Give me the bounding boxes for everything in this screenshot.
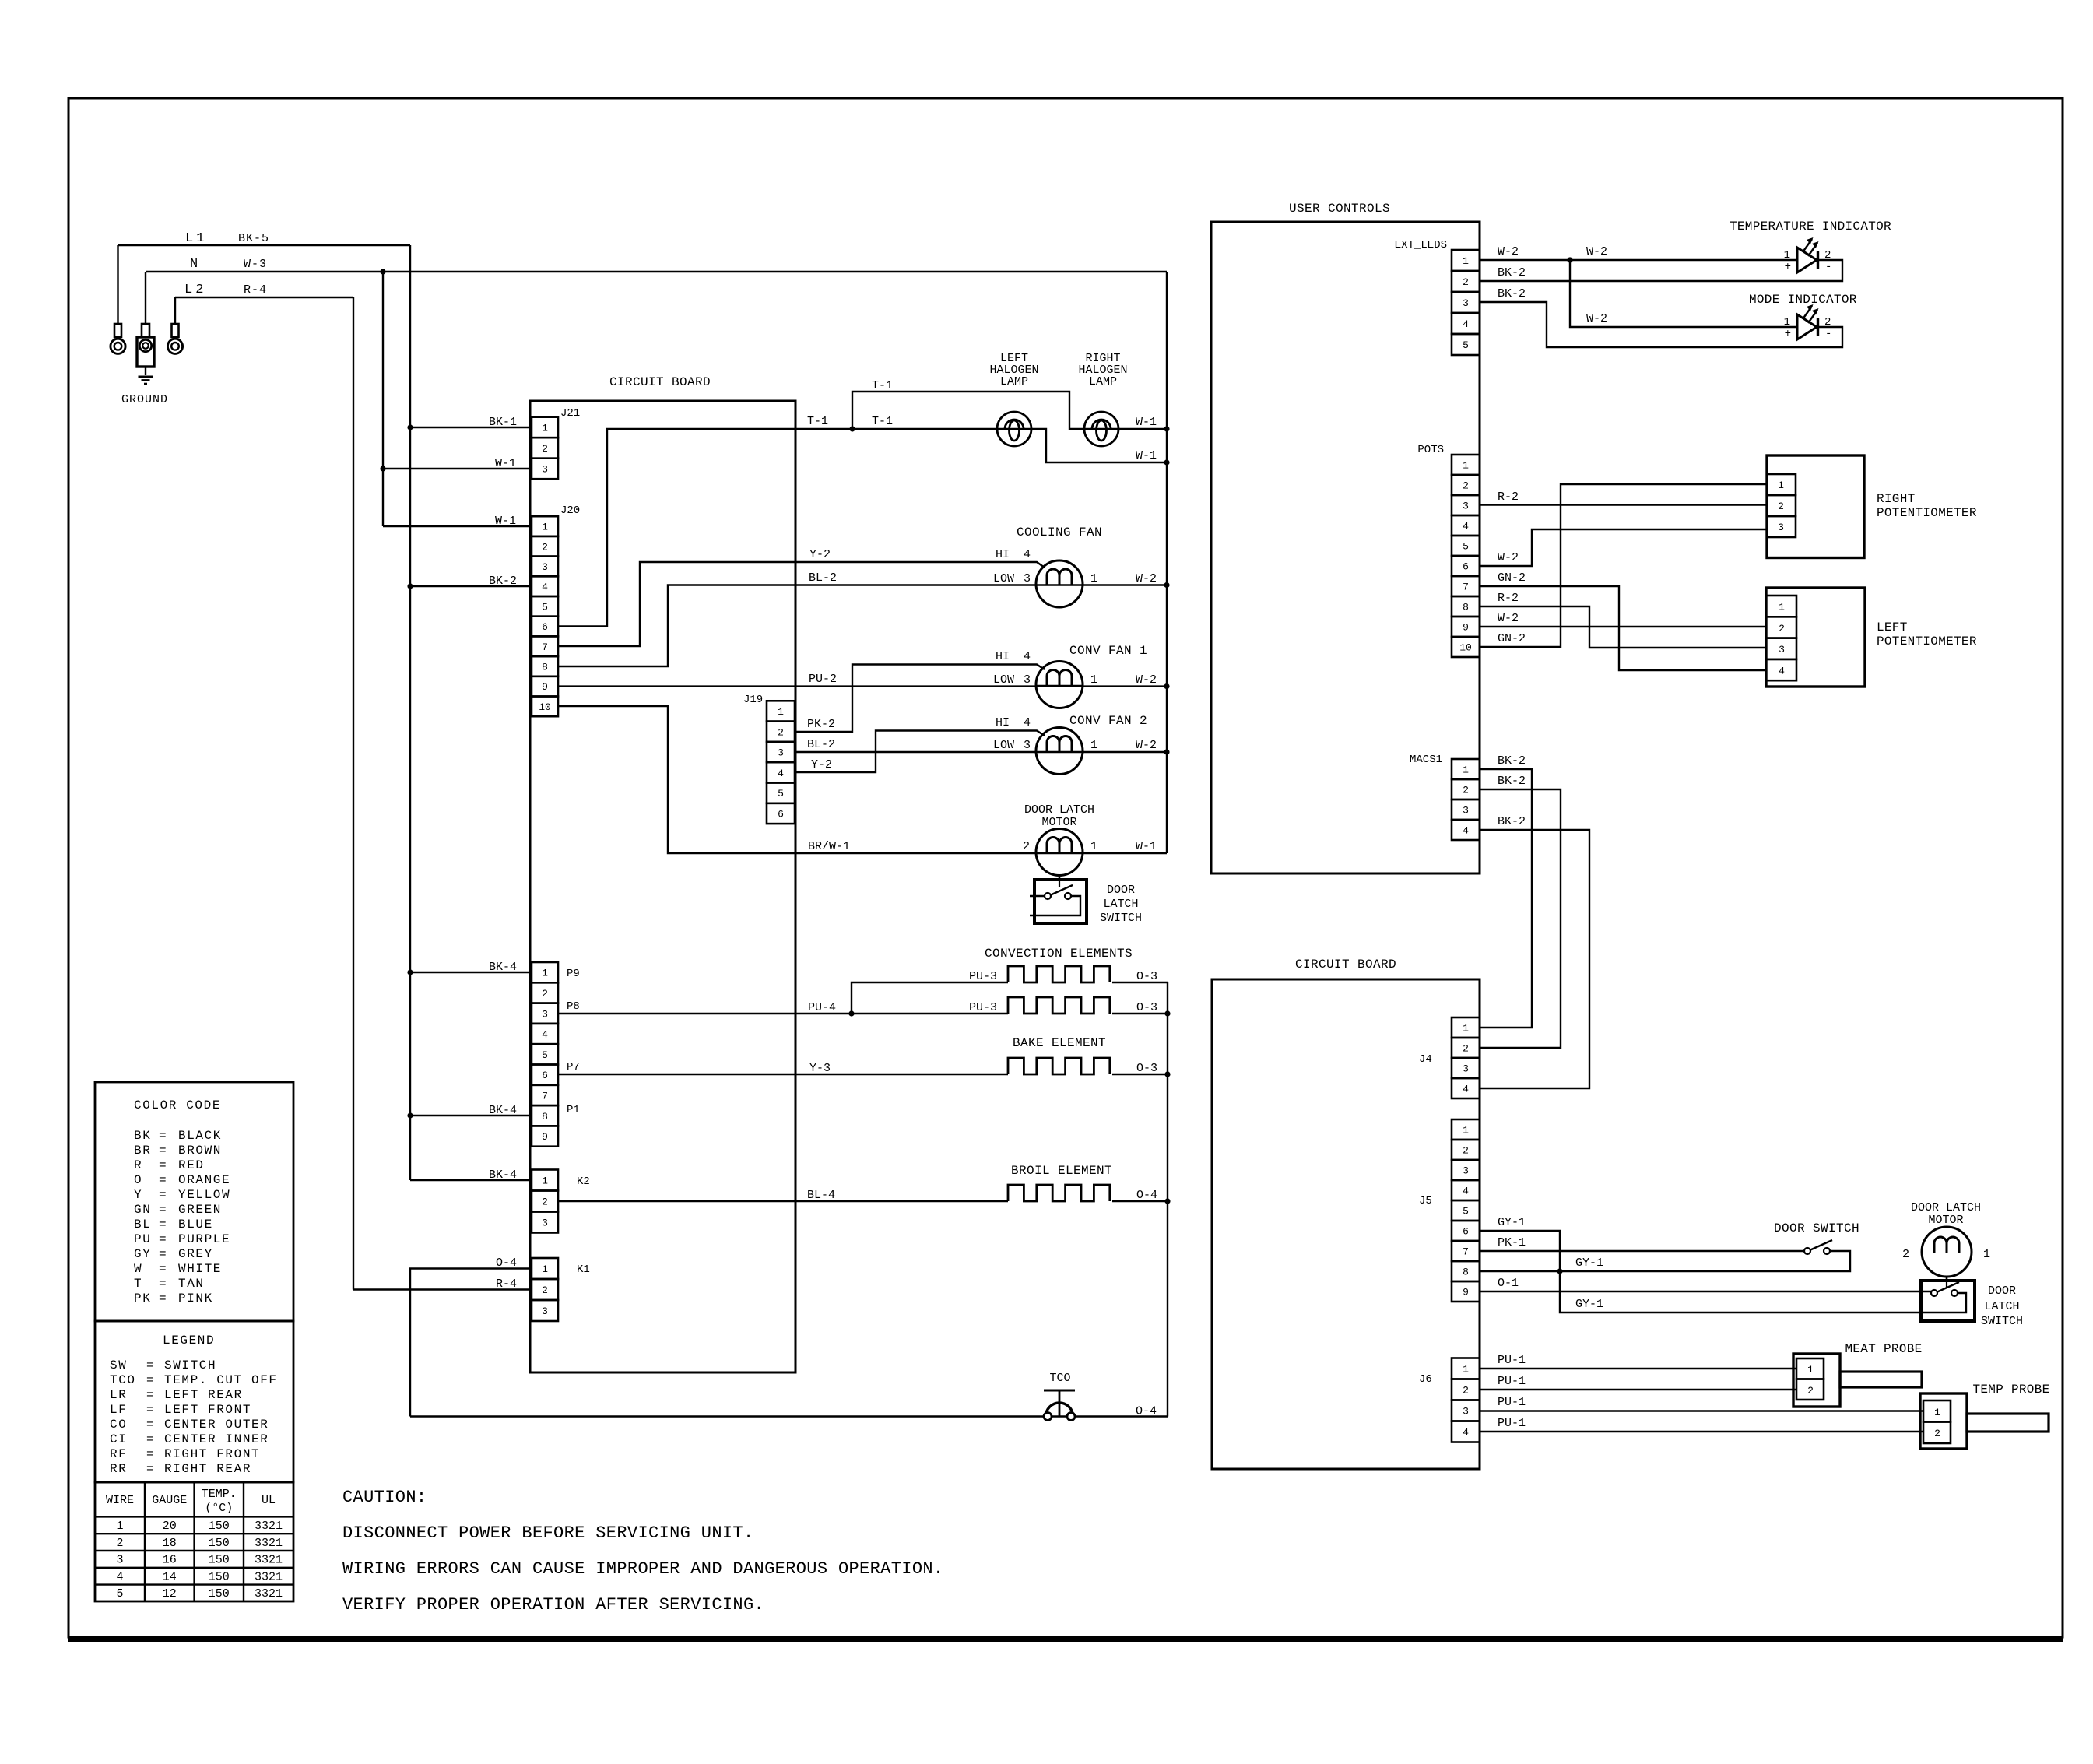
svg-text:3: 3: [542, 1305, 548, 1317]
svg-text:W-2: W-2: [1498, 612, 1519, 625]
svg-text:LAMP: LAMP: [1000, 375, 1028, 388]
svg-text:1: 1: [1463, 1125, 1469, 1137]
svg-text:4: 4: [1024, 716, 1031, 729]
svg-text:3: 3: [1779, 644, 1785, 655]
wire W-2 POTS-9 to left pot 2: [1480, 612, 1766, 627]
svg-text:W-1: W-1: [1136, 449, 1157, 462]
broil element: [795, 1164, 1168, 1202]
svg-text:2: 2: [1779, 623, 1785, 634]
svg-text:K2: K2: [577, 1175, 590, 1188]
svg-text:P7: P7: [567, 1061, 580, 1074]
svg-text:2: 2: [778, 726, 784, 738]
svg-text:150: 150: [209, 1587, 230, 1601]
svg-text:RED: RED: [178, 1158, 205, 1172]
svg-text:BL: BL: [134, 1218, 151, 1232]
svg-text:BL-2: BL-2: [807, 738, 835, 751]
temp probe: [1920, 1383, 2050, 1449]
svg-text:1: 1: [1090, 572, 1097, 585]
svg-text:DOOR LATCH: DOOR LATCH: [1911, 1201, 1981, 1214]
svg-text:3: 3: [1463, 805, 1469, 817]
svg-text:2: 2: [542, 1284, 548, 1296]
svg-text:=: =: [159, 1262, 167, 1276]
svg-text:5: 5: [542, 1049, 548, 1061]
wire BK-2 EXT_LEDS-3 mode LED return: [1480, 287, 1842, 347]
svg-text:DOOR: DOOR: [1107, 884, 1135, 897]
svg-text:150: 150: [209, 1554, 230, 1567]
svg-text:2: 2: [1463, 785, 1469, 796]
svg-text:LR: LR: [110, 1388, 127, 1402]
svg-text:2: 2: [1778, 501, 1784, 512]
svg-text:W-2: W-2: [1498, 245, 1519, 258]
svg-text:O-4: O-4: [496, 1256, 517, 1270]
wire BK-2 MACS1-2 to J4-2: [1480, 775, 1561, 1048]
svg-text:DISCONNECT POWER BEFORE SERVIC: DISCONNECT POWER BEFORE SERVICING UNIT.: [342, 1523, 754, 1543]
connector J6: [1419, 1358, 1480, 1442]
svg-text:BK-1: BK-1: [489, 416, 517, 429]
svg-text:1: 1: [542, 1175, 548, 1187]
svg-text:J6: J6: [1419, 1373, 1432, 1386]
svg-text:=: =: [159, 1232, 167, 1246]
svg-text:W-1: W-1: [1136, 416, 1157, 429]
svg-text:2: 2: [1463, 1043, 1469, 1055]
door latch switch 1: [1030, 877, 1142, 925]
convection element 2: [795, 997, 1168, 1017]
svg-text:10: 10: [1459, 642, 1472, 654]
wire W-2 to mode LED: [1570, 260, 1797, 327]
svg-text:POTENTIOMETER: POTENTIOMETER: [1877, 506, 1977, 520]
wire BR/W-1 to door latch motor: [795, 840, 1036, 853]
svg-text:9: 9: [1463, 1287, 1469, 1298]
user controls outline: [1211, 202, 1480, 873]
svg-text:BR/W-1: BR/W-1: [808, 840, 850, 853]
svg-text:150: 150: [209, 1520, 230, 1533]
wire GN-2 POTS-10 to right pot 1: [1480, 484, 1767, 647]
svg-text:3: 3: [1024, 739, 1031, 752]
svg-text:TCO: TCO: [110, 1373, 136, 1387]
svg-text:LOW: LOW: [993, 572, 1014, 585]
svg-text:SWITCH: SWITCH: [164, 1358, 216, 1372]
svg-text:14: 14: [163, 1570, 177, 1583]
svg-text:MOTOR: MOTOR: [1928, 1214, 1963, 1227]
svg-text:W-2: W-2: [1136, 572, 1157, 585]
svg-text:=: =: [146, 1418, 154, 1432]
svg-text:9: 9: [542, 681, 548, 693]
svg-text:1: 1: [1807, 1364, 1814, 1376]
wire W-2 POTS-6 to right pot 3: [1480, 529, 1767, 566]
wire J20-7 to Y-2 exit: [558, 562, 795, 646]
svg-text:WHITE: WHITE: [178, 1262, 222, 1276]
svg-text:6: 6: [542, 621, 548, 633]
svg-text:4: 4: [116, 1570, 123, 1583]
svg-text:1: 1: [542, 1263, 548, 1275]
svg-text:R-2: R-2: [1498, 592, 1519, 605]
svg-text:4: 4: [1779, 665, 1785, 676]
svg-text:2: 2: [1463, 480, 1469, 492]
svg-text:4: 4: [1024, 650, 1031, 663]
door latch switch 2: [1921, 1281, 2023, 1328]
svg-text:GAUGE: GAUGE: [152, 1494, 187, 1507]
svg-text:BL-2: BL-2: [809, 571, 837, 585]
svg-text:J19: J19: [743, 694, 763, 706]
svg-text:Y-3: Y-3: [809, 1062, 831, 1075]
svg-text:CONVECTION ELEMENTS: CONVECTION ELEMENTS: [985, 947, 1133, 961]
wire W-1 left lamp return: [1031, 429, 1167, 462]
svg-text:1: 1: [1463, 255, 1469, 267]
svg-text:Y: Y: [134, 1188, 142, 1202]
svg-text:3: 3: [778, 747, 784, 759]
svg-text:LEFT FRONT: LEFT FRONT: [164, 1403, 251, 1417]
svg-text:P1: P1: [567, 1104, 580, 1116]
svg-text:RR: RR: [110, 1462, 127, 1476]
wire W-1 to J21 pin 3: [383, 457, 532, 470]
svg-text:W-3: W-3: [244, 258, 267, 271]
wire cooling fan LOW BL-2: [795, 571, 1036, 585]
svg-text:WIRING ERRORS CAN CAUSE IMPROP: WIRING ERRORS CAN CAUSE IMPROPER AND DAN…: [342, 1559, 943, 1579]
wire element bus vertical: [1164, 982, 1170, 1417]
svg-text:=: =: [146, 1358, 154, 1372]
terminal N: [137, 272, 154, 367]
svg-text:W-2: W-2: [1498, 551, 1519, 564]
svg-text:BK-2: BK-2: [1498, 266, 1526, 279]
svg-text:EXT_LEDS: EXT_LEDS: [1395, 239, 1447, 251]
svg-text:HI: HI: [996, 548, 1010, 561]
conv fan 2 motor: [1036, 714, 1147, 775]
svg-text:PU-3: PU-3: [969, 970, 997, 983]
wire O-1 J5-9 to door latch switch: [1480, 1277, 1931, 1291]
svg-text:4: 4: [1463, 521, 1469, 532]
wire BK-2 to J20 pin 4: [410, 575, 532, 588]
svg-text:8: 8: [542, 1111, 548, 1123]
svg-text:PU-3: PU-3: [969, 1001, 997, 1014]
svg-text:GN: GN: [134, 1203, 151, 1217]
wire R-2 POTS-3 to right pot 2: [1480, 490, 1767, 505]
svg-text:1: 1: [1934, 1407, 1940, 1418]
svg-text:4: 4: [1463, 825, 1469, 837]
svg-text:1: 1: [542, 422, 548, 434]
svg-text:5: 5: [1463, 1206, 1469, 1218]
svg-text:TEMP. CUT OFF: TEMP. CUT OFF: [164, 1373, 278, 1387]
svg-text:1: 1: [1779, 602, 1785, 613]
wire conv fan 1 W-2 to bus: [1083, 673, 1167, 687]
svg-text:W-1: W-1: [495, 515, 516, 528]
svg-text:DOOR: DOOR: [1988, 1284, 2016, 1298]
svg-text:=: =: [159, 1188, 167, 1202]
svg-text:1: 1: [1983, 1248, 1990, 1261]
svg-text:BK-4: BK-4: [489, 1168, 517, 1182]
svg-text:2: 2: [542, 1196, 548, 1208]
svg-text:1: 1: [1090, 739, 1097, 752]
svg-text:RIGHT FRONT: RIGHT FRONT: [164, 1447, 260, 1461]
svg-text:=: =: [159, 1129, 167, 1143]
svg-text:1: 1: [1784, 316, 1790, 329]
wire PK-1 J5-7 to door switch: [1480, 1236, 1804, 1251]
svg-text:9: 9: [1463, 622, 1469, 634]
svg-text:W-2: W-2: [1136, 673, 1157, 687]
svg-text:T-1: T-1: [872, 415, 893, 428]
connector EXT_LEDS: [1395, 239, 1480, 355]
svg-text:GREEN: GREEN: [178, 1203, 222, 1217]
svg-text:RF: RF: [110, 1447, 127, 1461]
svg-text:USER CONTROLS: USER CONTROLS: [1289, 202, 1390, 216]
left halogen lamp: [989, 352, 1038, 446]
svg-text:BL-4: BL-4: [807, 1189, 835, 1202]
svg-text:4: 4: [1024, 548, 1031, 561]
svg-text:5: 5: [116, 1587, 123, 1601]
svg-text:CENTER OUTER: CENTER OUTER: [164, 1418, 269, 1432]
svg-text:BLACK: BLACK: [178, 1129, 222, 1143]
wire PU-1 J6-1: [1480, 1354, 1796, 1369]
svg-text:3321: 3321: [255, 1537, 283, 1550]
wire P8-3 PU-4 exit: [558, 1013, 795, 1014]
svg-text:PU-1: PU-1: [1498, 1354, 1526, 1367]
svg-text:1: 1: [542, 968, 548, 979]
connector J21: [532, 407, 580, 479]
wire PU-1 J6-3: [1480, 1396, 1923, 1411]
svg-text:2: 2: [1934, 1428, 1940, 1439]
svg-text:4: 4: [778, 768, 784, 779]
svg-text:N: N: [190, 257, 198, 272]
svg-text:O-4: O-4: [1136, 1405, 1157, 1418]
svg-text:CIRCUIT BOARD: CIRCUIT BOARD: [1295, 958, 1396, 972]
svg-text:Y-2: Y-2: [811, 758, 832, 771]
svg-text:LATCH: LATCH: [1103, 898, 1138, 911]
wire conv fan 1 LOW PU-2: [795, 673, 1036, 687]
svg-text:3321: 3321: [255, 1570, 283, 1583]
svg-text:2: 2: [1023, 840, 1030, 853]
svg-text:GY: GY: [134, 1247, 151, 1261]
svg-text:1: 1: [778, 706, 784, 718]
svg-text:POTENTIOMETER: POTENTIOMETER: [1877, 634, 1977, 648]
wire W-1 to J20 pin 1: [383, 515, 532, 528]
svg-text:HI: HI: [996, 716, 1010, 729]
wire BK-2 EXT_LEDS-2 temperature LED return: [1480, 260, 1842, 281]
svg-text:BK-4: BK-4: [489, 961, 517, 974]
mode indicator LED: [1749, 293, 1857, 340]
svg-text:=: =: [159, 1291, 167, 1305]
svg-text:2: 2: [542, 988, 548, 1000]
temperature indicator LED: [1730, 220, 1891, 273]
svg-text:BK-4: BK-4: [489, 1104, 517, 1117]
wire neutral bus vertical: [1164, 272, 1169, 853]
svg-text:O-1: O-1: [1498, 1277, 1519, 1290]
svg-text:DOOR SWITCH: DOOR SWITCH: [1774, 1221, 1859, 1235]
svg-text:5: 5: [542, 601, 548, 613]
svg-text:=: =: [159, 1218, 167, 1232]
svg-text:MOTOR: MOTOR: [1041, 816, 1076, 829]
svg-text:7: 7: [1463, 1246, 1469, 1258]
svg-text:+: +: [1785, 261, 1791, 273]
svg-text:MACS1: MACS1: [1410, 754, 1442, 766]
svg-text:PU-2: PU-2: [809, 673, 837, 686]
svg-text:=: =: [146, 1432, 154, 1446]
svg-text:O: O: [134, 1173, 142, 1187]
svg-text:R: R: [134, 1158, 142, 1172]
svg-text:TEMP.: TEMP.: [202, 1488, 237, 1501]
svg-text:BROIL ELEMENT: BROIL ELEMENT: [1011, 1164, 1112, 1178]
svg-text:7: 7: [1463, 582, 1469, 593]
svg-text:BK: BK: [134, 1129, 151, 1143]
right potentiometer: [1767, 455, 1977, 558]
svg-text:TEMPERATURE INDICATOR: TEMPERATURE INDICATOR: [1730, 220, 1891, 234]
svg-text:PURPLE: PURPLE: [178, 1232, 230, 1246]
left potentiometer: [1766, 588, 1977, 687]
svg-text:W-2: W-2: [1136, 739, 1157, 752]
svg-text:VERIFY PROPER OPERATION AFTER: VERIFY PROPER OPERATION AFTER SERVICING.: [342, 1595, 764, 1615]
svg-text:8: 8: [542, 661, 548, 673]
svg-text:4: 4: [542, 582, 548, 593]
wire gauge table: [95, 1482, 293, 1601]
svg-text:CI: CI: [110, 1432, 127, 1446]
svg-text:P8: P8: [567, 1000, 580, 1013]
svg-text:L1: L1: [185, 231, 207, 246]
svg-text:W-2: W-2: [1586, 312, 1607, 325]
svg-text:W-2: W-2: [1586, 245, 1607, 258]
svg-text:PU-4: PU-4: [808, 1001, 836, 1014]
svg-text:1: 1: [1090, 673, 1097, 687]
svg-text:3321: 3321: [255, 1554, 283, 1567]
wire BK-4 to K2-1: [410, 1168, 532, 1182]
wire T-1 bypass to right lamp: [852, 379, 1085, 429]
svg-text:LAMP: LAMP: [1089, 375, 1117, 388]
svg-text:6: 6: [1463, 1226, 1469, 1238]
wire cooling fan W-2 to bus: [1083, 572, 1167, 585]
connector J5: [1419, 1119, 1480, 1302]
svg-text:LOW: LOW: [993, 739, 1014, 752]
caution text: [342, 1488, 943, 1615]
svg-text:=: =: [146, 1447, 154, 1461]
svg-text:4: 4: [1463, 1186, 1469, 1197]
wire O-4 to K1-1: [410, 1256, 532, 1417]
svg-text:COOLING FAN: COOLING FAN: [1017, 525, 1102, 539]
svg-text:T-1: T-1: [872, 379, 893, 392]
wire conv fan 2 W-2 to bus: [1083, 739, 1167, 752]
svg-text:W: W: [134, 1262, 142, 1276]
svg-text:P9: P9: [567, 968, 580, 980]
svg-text:LF: LF: [110, 1403, 127, 1417]
wire J20-8 to BL-2 exit: [558, 585, 795, 667]
svg-text:1: 1: [542, 522, 548, 533]
wire conv fan 2 LOW from J19-3 BL-2: [795, 738, 1036, 752]
door switch: [1774, 1221, 1859, 1254]
svg-text:20: 20: [163, 1520, 177, 1533]
wire BK-2 MACS1-1 to J4-1: [1480, 754, 1532, 1028]
wire BK-1 to J21 pin 1: [410, 416, 532, 429]
svg-text:=: =: [159, 1158, 167, 1172]
svg-text:2: 2: [1463, 276, 1469, 288]
wire T-1 from board to left lamp: [795, 415, 997, 432]
svg-text:J5: J5: [1419, 1195, 1432, 1207]
svg-text:CONV FAN 2: CONV FAN 2: [1069, 714, 1147, 728]
svg-text:TEMP PROBE: TEMP PROBE: [1972, 1383, 2049, 1397]
svg-text:=: =: [159, 1203, 167, 1217]
svg-text:GY-1: GY-1: [1575, 1256, 1603, 1270]
svg-text:+: +: [1785, 328, 1791, 340]
wire W-2 EXT_LEDS-1 to temperature LED: [1480, 245, 1797, 263]
svg-text:UL: UL: [262, 1494, 276, 1507]
svg-text:-: -: [1825, 261, 1831, 273]
svg-text:6: 6: [778, 808, 784, 820]
svg-text:HI: HI: [996, 650, 1010, 663]
svg-text:2: 2: [1463, 1385, 1469, 1397]
svg-text:4: 4: [1463, 318, 1469, 330]
svg-text:150: 150: [209, 1570, 230, 1583]
svg-text:W-1: W-1: [495, 457, 516, 470]
svg-text:L2: L2: [184, 283, 206, 297]
svg-text:J20: J20: [560, 504, 580, 517]
legend box: [95, 1321, 293, 1482]
svg-text:T: T: [134, 1277, 142, 1291]
wire J20-10 to BR/W-1 exit: [558, 706, 795, 853]
connector J19: [743, 694, 795, 824]
svg-text:R-4: R-4: [496, 1277, 517, 1291]
wire K2-2 BL-4 exit: [558, 1200, 795, 1202]
svg-text:LEGEND: LEGEND: [163, 1334, 215, 1348]
svg-text:18: 18: [163, 1537, 177, 1550]
wire BK-2 MACS1-4 to J4-4: [1480, 815, 1589, 1088]
svg-text:PU-1: PU-1: [1498, 1375, 1526, 1388]
svg-text:GREY: GREY: [178, 1247, 213, 1261]
svg-text:TCO: TCO: [1049, 1372, 1070, 1385]
svg-text:GROUND: GROUND: [121, 393, 168, 406]
wire L2 vertical drop: [353, 297, 354, 1290]
svg-text:2: 2: [116, 1537, 123, 1550]
svg-text:PU-1: PU-1: [1498, 1396, 1526, 1409]
svg-text:CIRCUIT BOARD: CIRCUIT BOARD: [609, 375, 711, 389]
svg-text:DOOR LATCH: DOOR LATCH: [1024, 803, 1094, 817]
svg-text:3: 3: [542, 463, 548, 475]
svg-text:K1: K1: [577, 1263, 590, 1276]
svg-text:BAKE ELEMENT: BAKE ELEMENT: [1013, 1036, 1106, 1050]
svg-text:1: 1: [116, 1520, 123, 1533]
svg-text:=: =: [159, 1173, 167, 1187]
svg-text:6: 6: [542, 1070, 548, 1081]
wire L1 vertical bus: [407, 245, 413, 1180]
svg-text:1: 1: [1784, 249, 1790, 262]
svg-text:7: 7: [542, 641, 548, 653]
svg-text:CENTER INNER: CENTER INNER: [164, 1432, 269, 1446]
svg-text:1: 1: [1090, 840, 1097, 853]
svg-text:LEFT: LEFT: [1877, 620, 1908, 634]
svg-text:-: -: [1825, 328, 1831, 340]
svg-text:7: 7: [542, 1090, 548, 1102]
svg-text:BK-2: BK-2: [1498, 775, 1526, 788]
wire BK-4 to P9-1: [410, 961, 532, 974]
svg-text:O-3: O-3: [1136, 1062, 1157, 1075]
svg-text:BK-2: BK-2: [1498, 287, 1526, 300]
svg-text:3: 3: [1463, 1165, 1469, 1177]
svg-text:3: 3: [1778, 522, 1784, 533]
svg-text:COLOR CODE: COLOR CODE: [134, 1098, 221, 1112]
svg-text:YELLOW: YELLOW: [178, 1188, 230, 1202]
right halogen lamp: [1078, 352, 1127, 446]
wire GY-1 J5-8 door switch return: [1480, 1251, 1850, 1274]
svg-text:LEFT REAR: LEFT REAR: [164, 1388, 243, 1402]
svg-text:CAUTION:: CAUTION:: [342, 1488, 427, 1507]
svg-text:3: 3: [1463, 1406, 1469, 1418]
svg-text:SWITCH: SWITCH: [1981, 1315, 2023, 1328]
svg-text:T-1: T-1: [807, 415, 828, 428]
connector MACS1: [1410, 754, 1480, 840]
connector J4: [1419, 1017, 1480, 1098]
svg-text:CO: CO: [110, 1418, 127, 1432]
svg-text:=: =: [159, 1144, 167, 1158]
svg-text:BK-2: BK-2: [1498, 754, 1526, 768]
svg-text:150: 150: [209, 1537, 230, 1550]
svg-text:PK-1: PK-1: [1498, 1236, 1526, 1249]
svg-text:MODE INDICATOR: MODE INDICATOR: [1749, 293, 1857, 307]
svg-text:=: =: [159, 1247, 167, 1261]
wire J20-6 to T-1 exit: [558, 429, 795, 627]
